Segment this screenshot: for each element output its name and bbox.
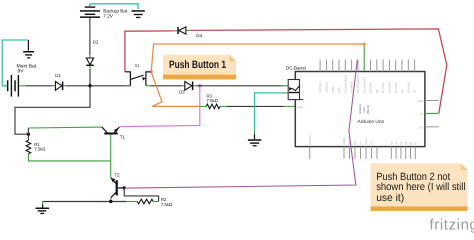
note: Push Button 1 — [163, 55, 236, 80]
svg-text:IOREF: IOREF — [343, 137, 346, 145]
svg-text:7.2V: 7.2V — [103, 14, 114, 19]
transistor T2 — [111, 178, 124, 198]
diode D1 — [55, 81, 62, 90]
wire R3 to Arduino GND left pin — [220, 105, 227, 107]
wire backup battery to ground (teal) — [90, 4, 138, 9]
svg-text:7.5kΩ: 7.5kΩ — [161, 202, 173, 207]
battery B1 Main Bat. 9V — [7, 75, 19, 97]
wire node A down-around to R1 junction — [15, 86, 90, 134]
wire T2 collector lead (green) — [110, 198, 112, 202]
svg-text:7.5kΩ: 7.5kΩ — [34, 147, 46, 152]
node A junction — [88, 84, 91, 87]
svg-text:GND: GND — [417, 100, 423, 103]
svg-text:3V3: 3V3 — [354, 140, 357, 145]
purple wire: T2 base to Arduino pin — [124, 60, 357, 188]
diode D2 — [86, 58, 93, 65]
red wire continues to 5V pin — [191, 29, 447, 114]
svg-text:D7 PWM: D7 PWM — [382, 83, 385, 93]
ground GND1 (top-left) — [23, 40, 34, 59]
wire backup battery top lead (green) — [89, 4, 91, 7]
svg-text:Arduino Uno: Arduino Uno — [358, 119, 385, 125]
wire T1 emitter to R3 node (pink) — [120, 86, 200, 127]
svg-text:D5 PWM: D5 PWM — [395, 83, 398, 93]
svg-text:A2: A2 — [400, 141, 403, 145]
orange wire A: S1 to R3 node — [151, 72, 200, 107]
svg-text:5V: 5V — [360, 142, 363, 145]
wire T2 base loop to R2 right — [124, 188, 158, 202]
resistor R3 7.5k — [200, 105, 207, 107]
svg-text:SCL/D19: SCL/D19 — [319, 82, 322, 93]
svg-text:3V3: 3V3 — [419, 126, 424, 129]
svg-text:D3 PWM: D3 PWM — [407, 83, 410, 93]
svg-text:D4: D4 — [401, 89, 404, 93]
node S1 right-top (red bendpoint) — [150, 70, 153, 73]
svg-text:D4: D4 — [196, 33, 202, 38]
diode D3 — [185, 82, 193, 91]
svg-text:(Rev3): (Rev3) — [366, 105, 370, 114]
svg-text:A0: A0 — [390, 141, 393, 145]
svg-text:S1: S1 — [135, 63, 141, 68]
svg-text:Push Button 1: Push Button 1 — [169, 59, 226, 71]
pin D2 (green, orange wire) — [363, 48, 365, 72]
DC-Barrel jack J1 — [288, 80, 303, 100]
svg-text:D3: D3 — [179, 89, 185, 94]
wire main battery negative to ground (teal) — [2, 40, 28, 86]
svg-text:VIN: VIN — [371, 141, 374, 145]
note: Push Button 2 — [371, 163, 468, 211]
Arduino bottom pins — [310, 147, 416, 159]
svg-text:9V: 9V — [18, 69, 25, 75]
svg-text:D8: D8 — [376, 89, 379, 93]
svg-text:GND: GND — [338, 87, 341, 93]
Arduino top pins — [320, 60, 415, 72]
wire R1 corner to T1 collector (green) — [28, 126, 102, 129]
wire D3 to DC barrel — [193, 85, 196, 87]
node B junction (R1 top branch) — [27, 133, 30, 136]
svg-text:GND: GND — [297, 106, 303, 109]
pushbutton S1 — [125, 72, 151, 86]
Arduino right pins GND 5V 3V3 — [425, 100, 439, 102]
svg-text:DC-Barrel: DC-Barrel — [286, 65, 306, 70]
svg-text:7.5kΩ: 7.5kΩ — [207, 98, 219, 103]
svg-text:A3: A3 — [405, 141, 408, 145]
wire R1 bottom to T2 emitter — [28, 154, 110, 161]
svg-text:D2: D2 — [414, 89, 417, 93]
svg-text:GND: GND — [365, 139, 368, 145]
svg-text:A1: A1 — [395, 141, 398, 145]
resistor R1 7.5k (vertical) — [26, 140, 31, 154]
svg-text:D11 PWM/MOSI: D11 PWM/MOSI — [357, 74, 360, 93]
Arduino Uno board U1 — [295, 72, 425, 147]
svg-text:A4: A4 — [410, 141, 413, 145]
svg-text:D10 PWM/SS: D10 PWM/SS — [363, 77, 366, 93]
battery B2 Backup Bat. 7.2v — [80, 6, 100, 18]
ground GND2 (top) — [132, 10, 145, 18]
svg-text:D2: D2 — [93, 40, 99, 45]
resistor R2 7.5k — [137, 199, 153, 204]
teal wire: DC barrel sleeve to ground — [255, 93, 283, 130]
Arduino bottom pin labels — [309, 134, 418, 145]
red wire: S1 up and across top to Arduino 5V — [125, 31, 173, 72]
diode D4 — [178, 27, 186, 34]
node C junction (pink dot on rail) — [198, 84, 201, 87]
svg-text:use it): use it) — [376, 192, 404, 204]
transistor T1 — [102, 127, 120, 135]
wire D2 to node A — [89, 66, 91, 69]
ground GND3 (bottom-left) — [36, 202, 50, 215]
svg-text:fritzing: fritzing — [430, 217, 474, 234]
node E junction (T2 collector on ground rail) — [109, 200, 112, 203]
svg-text:T1: T1 — [120, 134, 126, 139]
svg-text:RESET2: RESET2 — [309, 134, 312, 145]
ground GND4 (center) — [248, 134, 262, 146]
wire D1 to node A — [63, 85, 66, 87]
svg-text:D1: D1 — [55, 73, 61, 78]
svg-text:D6 PWM: D6 PWM — [389, 83, 392, 93]
node D junction (T2 base) — [123, 186, 126, 189]
wire battery+ to D1 — [19, 85, 26, 87]
svg-text:AREF: AREF — [332, 86, 335, 93]
svg-text:SDA/D18: SDA/D18 — [326, 82, 329, 93]
svg-text:T2: T2 — [115, 173, 121, 178]
orange wire B: S1 up over top to Arduino pin D2 — [151, 44, 364, 72]
wire node B up to R1 top corner — [27, 128, 29, 140]
wire S1 to D3 — [146, 85, 151, 87]
svg-text:5V: 5V — [420, 113, 423, 116]
svg-text:A5: A5 — [414, 141, 417, 145]
wire backup battery bottom to D2 — [89, 18, 91, 55]
svg-text:D9 PWM: D9 PWM — [370, 83, 373, 93]
svg-text:D13 PWM/SCK: D13 PWM/SCK — [344, 75, 347, 93]
wire R2 left to ground rail — [126, 201, 137, 203]
label Arduino Uno (Rev3) rotated — [358, 103, 370, 114]
Arduino top pin labels — [319, 74, 417, 93]
wire T1 base down to T2 (green) — [110, 135, 112, 178]
